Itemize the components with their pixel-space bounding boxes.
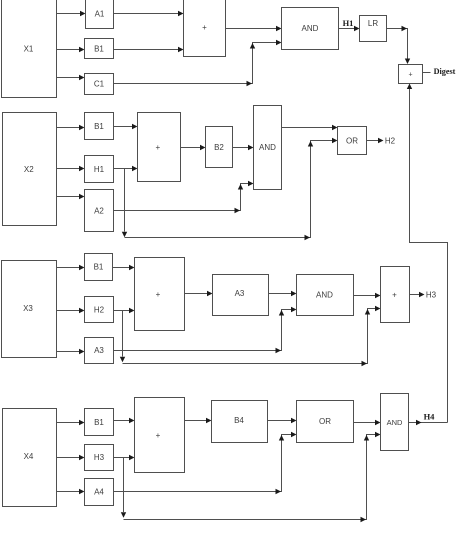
wire OR2 to H2	[367, 138, 384, 143]
wire B1 to adder3	[113, 265, 135, 270]
wire A3 to AND3	[114, 307, 297, 353]
register H1 row2	[85, 156, 114, 183]
svg-text:LR: LR	[368, 19, 378, 28]
wire digest output	[423, 72, 431, 74]
svg-text:B1: B1	[94, 122, 104, 131]
wire H2 tee to adder3b	[123, 306, 381, 366]
wire LR to digest adder top	[387, 26, 411, 64]
svg-text:C1: C1	[94, 80, 105, 89]
register H2 row3	[85, 297, 114, 323]
wire A3 block to AND3	[269, 291, 297, 296]
block B4	[212, 401, 268, 443]
AND gate row1	[282, 8, 339, 50]
svg-text:A3: A3	[94, 346, 104, 355]
wire X4 to H3	[57, 455, 85, 460]
svg-text:H3: H3	[426, 291, 437, 300]
svg-text:+: +	[156, 431, 161, 440]
wire AND4 to H4 feedback	[409, 420, 448, 425]
svg-text:A3: A3	[235, 289, 245, 298]
wire X3 to H2	[57, 308, 85, 313]
svg-text:A2: A2	[94, 207, 104, 216]
wire adder3 to A3 block	[185, 291, 213, 296]
OR gate row2	[338, 127, 367, 155]
svg-text:+: +	[156, 290, 161, 299]
svg-text:H1: H1	[343, 18, 354, 28]
label H4	[424, 412, 436, 422]
svg-text:Digest: Digest	[434, 67, 456, 76]
svg-text:H2: H2	[94, 305, 105, 314]
adder block row3	[135, 258, 185, 331]
OR gate row4	[297, 401, 354, 443]
register A1	[86, 0, 114, 29]
register B1 row4	[85, 409, 114, 436]
wire X2 to A2	[57, 194, 85, 199]
wire C1 to AND1	[114, 40, 282, 86]
register A3 row3	[85, 338, 114, 364]
svg-text:H4: H4	[424, 412, 436, 422]
wire A2 to AND2	[114, 181, 254, 213]
wire OR4 to AND4	[354, 420, 381, 425]
svg-text:X1: X1	[24, 45, 34, 54]
digest adder	[399, 65, 423, 84]
svg-text:X2: X2	[24, 165, 34, 174]
wire adder2 to B2	[181, 145, 206, 150]
wire H2 tee down	[120, 311, 125, 363]
svg-text:H1: H1	[94, 165, 105, 174]
AND gate row2	[254, 106, 282, 190]
wire X3 to B1	[57, 265, 85, 270]
svg-text:OR: OR	[346, 136, 358, 145]
wire H1 tee to OR2	[125, 138, 338, 240]
wire H1 to adder2	[114, 166, 138, 171]
block X2	[3, 113, 57, 226]
svg-text:B2: B2	[214, 143, 224, 152]
svg-text:+: +	[202, 23, 207, 32]
block X1	[2, 0, 57, 98]
wire adder1 to AND1	[226, 26, 282, 31]
wire H2 to adder3	[114, 308, 135, 313]
wire X1 to C1	[57, 75, 85, 80]
wire A4 to OR4	[114, 432, 297, 494]
wire adder4 to B4	[185, 418, 212, 423]
wire B2 to AND2	[233, 145, 254, 150]
svg-text:X4: X4	[24, 452, 34, 461]
wire A1 to adder1	[114, 11, 184, 16]
register B1 row1	[85, 39, 114, 59]
svg-text:+: +	[392, 291, 397, 300]
svg-text:B1: B1	[94, 263, 104, 272]
wire X2 to B1	[57, 125, 85, 130]
label H1	[343, 18, 354, 28]
svg-text:A1: A1	[95, 10, 105, 19]
svg-text:AND: AND	[387, 418, 403, 427]
svg-text:B4: B4	[234, 416, 244, 425]
wire X4 to A4	[57, 489, 85, 494]
svg-text:AND: AND	[259, 143, 276, 152]
register B2	[206, 127, 233, 168]
register B1 row3	[85, 254, 113, 281]
register C1	[85, 74, 114, 95]
svg-text:H3: H3	[94, 453, 105, 462]
svg-text:+: +	[155, 143, 160, 152]
wire X4 to B1	[57, 420, 85, 425]
wire X1 to A1	[57, 11, 86, 16]
svg-text:A4: A4	[94, 488, 104, 497]
svg-text:+: +	[408, 72, 412, 79]
wire H1 tee down	[122, 169, 127, 238]
wire X3 to A3	[57, 349, 85, 354]
AND gate row3	[297, 275, 354, 316]
label Digest	[434, 67, 456, 76]
AND gate row4	[381, 394, 409, 451]
wire adder3b to H3	[410, 292, 425, 297]
wire H4 feedback to digest adder bottom	[407, 84, 448, 423]
svg-text:AND: AND	[302, 24, 319, 33]
block X3	[2, 261, 57, 358]
wire AND1 to LR	[339, 26, 360, 31]
wire X2 to H1	[57, 166, 85, 171]
svg-text:AND: AND	[316, 291, 333, 300]
adder block row1	[184, 0, 226, 57]
wire H3 to adder4	[114, 455, 135, 460]
adder block row2	[138, 113, 181, 182]
register A2	[85, 190, 114, 232]
wire B4 to OR4	[268, 418, 297, 423]
svg-text:OR: OR	[319, 417, 331, 426]
wire AND3 to adder3b	[354, 293, 381, 298]
wire H3 tee to AND4	[124, 432, 381, 522]
block X4	[3, 409, 57, 507]
block LR	[360, 16, 387, 42]
label H2	[385, 137, 396, 146]
svg-text:B1: B1	[94, 45, 104, 54]
register B1 row2	[85, 113, 114, 140]
adder block row3 output	[381, 267, 410, 323]
wire B1 to adder2	[114, 124, 138, 129]
wire B1 to adder4	[114, 418, 135, 423]
label H3	[426, 291, 437, 300]
wire H3 tee down	[121, 458, 126, 518]
register H3 row4	[85, 445, 114, 471]
block A3 row3	[213, 275, 269, 316]
wire B1 to adder1	[114, 47, 184, 52]
adder block row4	[135, 398, 185, 473]
register A4	[85, 479, 114, 506]
wire X1 to B1	[57, 47, 85, 52]
svg-text:B1: B1	[94, 418, 104, 427]
svg-text:X3: X3	[23, 304, 33, 313]
wire AND2 to OR2	[282, 125, 338, 130]
svg-text:H2: H2	[385, 137, 396, 146]
